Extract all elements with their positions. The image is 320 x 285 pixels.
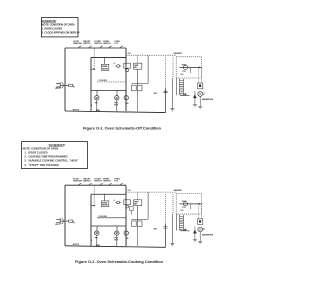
svg-text:3.: 3.: [24, 160, 26, 163]
svg-text:COOKING TIME PROGRAMMED: COOKING TIME PROGRAMMED: [28, 155, 67, 158]
svg-text:Figure O-1. Oven Schematic-Off: Figure O-1. Oven Schematic-Off Condition: [83, 125, 162, 130]
svg-text:Figure O-2. Oven Schematic-Coo: Figure O-2. Oven Schematic-Cooking Condi…: [75, 259, 164, 264]
svg-text:SCHEMATIC: SCHEMATIC: [42, 19, 57, 23]
svg-text:SCHEMATIC: SCHEMATIC: [49, 143, 66, 147]
svg-text:4.: 4.: [24, 164, 26, 167]
svg-text:DOOR CLOSED: DOOR CLOSED: [28, 151, 47, 154]
svg-text:1.: 1.: [24, 151, 26, 154]
svg-text:"START" PAD TOUCHED: "START" PAD TOUCHED: [28, 164, 58, 167]
svg-text:NOTE: CONDITION OF OVEN: NOTE: CONDITION OF OVEN: [23, 147, 59, 150]
svg-text:2.: 2.: [24, 155, 26, 158]
svg-text:NOTE: CONDITION OF OVEN: NOTE: CONDITION OF OVEN: [42, 24, 75, 27]
svg-text:VARIABLE COOKING CONTROL, "HIG: VARIABLE COOKING CONTROL, "HIGH": [28, 160, 79, 163]
svg-text:1. DOOR CLOSED: 1. DOOR CLOSED: [42, 27, 63, 30]
svg-text:2. CLOCK APPEARS ON DISPLAY: 2. CLOCK APPEARS ON DISPLAY: [42, 31, 80, 34]
